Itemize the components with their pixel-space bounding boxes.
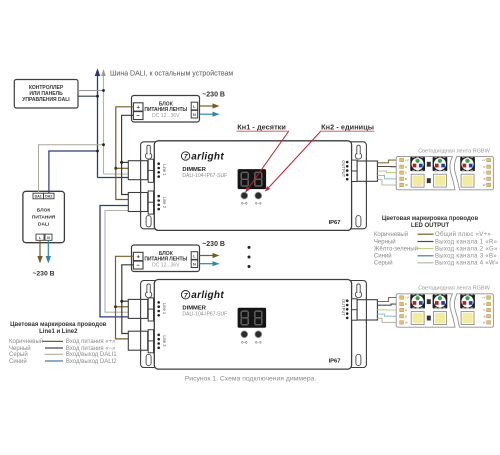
svg-text:DALI: DALI [38,222,50,228]
svg-text:Рисунок 1. Схема подключения д: Рисунок 1. Схема подключения диммера. [185,375,317,382]
svg-text:−: − [137,114,141,120]
svg-text:Line1 и Line2: Line1 и Line2 [39,329,78,335]
svg-text:Светодиодная лента RGBW: Светодиодная лента RGBW [418,148,490,154]
svg-text:Цветовая маркировка проводов: Цветовая маркировка проводов [10,322,107,328]
svg-text:DC 12...36V: DC 12...36V [152,113,180,119]
svg-text:Жёлто-зеленый: Жёлто-зеленый [374,245,418,252]
svg-text:Вход питания «+»: Вход питания «+» [66,339,116,345]
svg-text:Шина DALI, к остальным устройс: Шина DALI, к остальным устройствам [110,70,233,78]
svg-text:Черный: Черный [374,238,396,245]
svg-text:Коричневый: Коричневый [374,231,408,238]
svg-text:Серый: Серый [374,260,393,267]
svg-text:Вход питания «−»: Вход питания «−» [66,346,116,352]
svg-text:Кн2 - единицы: Кн2 - единицы [321,122,374,131]
svg-text:Выход канала 3 «B»: Выход канала 3 «B» [435,254,497,260]
svg-text:УПРАВЛЕНИЯ DALI: УПРАВЛЕНИЯ DALI [22,97,70,103]
svg-text:ПИТАНИЯ: ПИТАНИЯ [32,215,56,221]
svg-text:+: + [137,105,141,111]
svg-text:Коричневый: Коричневый [9,338,43,345]
svg-text:Черный: Черный [9,345,31,352]
svg-text:DA2: DA2 [45,195,52,199]
svg-text:Общий плюс «V+»: Общий плюс «V+» [435,231,491,238]
svg-text:ПИТАНИЯ ЛЕНТЫ: ПИТАНИЯ ЛЕНТЫ [144,107,187,113]
svg-text:Синий: Синий [9,358,27,365]
svg-text:Выход канала 4 «W»: Выход канала 4 «W» [435,261,499,267]
svg-text:LED OUTPUT: LED OUTPUT [411,223,450,229]
svg-text:Вход/выход DALI2: Вход/выход DALI2 [66,359,117,365]
svg-text:Выход канала 1 «R»: Выход канала 1 «R» [435,239,498,245]
svg-text:Серый: Серый [9,351,28,358]
svg-text:N: N [47,236,50,240]
svg-text:~230 В: ~230 В [202,92,225,99]
svg-text:Кн1 - десятки: Кн1 - десятки [237,122,286,131]
svg-text:Светодиодная лента RGBW: Светодиодная лента RGBW [418,285,490,291]
svg-text:Выход канала 2 «G»: Выход канала 2 «G» [435,246,498,252]
svg-text:Вход/выход DALI1: Вход/выход DALI1 [66,352,117,358]
svg-text:Цветовая маркировка проводов: Цветовая маркировка проводов [382,216,479,222]
svg-text:~230 В: ~230 В [32,270,54,277]
svg-text:Синий: Синий [374,253,392,260]
svg-text:DA1: DA1 [35,195,42,199]
svg-text:БЛОК: БЛОК [37,208,50,214]
svg-text:N: N [193,113,196,117]
